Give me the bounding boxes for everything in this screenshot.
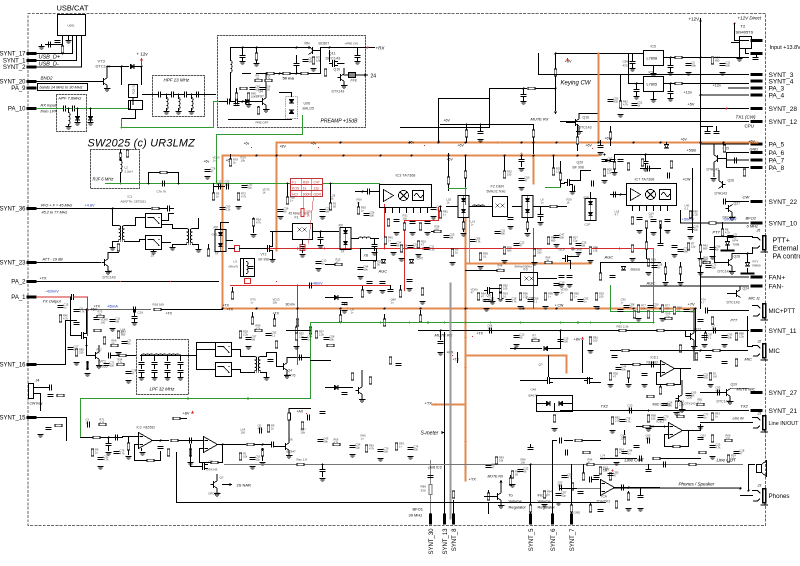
- svg-text:C48: C48: [531, 388, 537, 392]
- svg-text:VT2: VT2: [261, 253, 267, 257]
- ground: [598, 153, 604, 156]
- wire: [571, 514, 573, 518]
- wire: [266, 373, 268, 377]
- svg-text:SYNT_13: SYNT_13: [443, 528, 449, 555]
- wire: [197, 342, 216, 344]
- transformer: [119, 226, 125, 242]
- wire: [580, 171, 582, 181]
- junction on +12 rail: [556, 142, 558, 144]
- wire +6V stub: [441, 124, 534, 126]
- junction on +TX rail: [256, 308, 258, 310]
- ground: [425, 233, 431, 236]
- capacitor: [407, 280, 412, 282]
- junction: [256, 47, 258, 49]
- wire: [708, 310, 749, 312]
- ground: [420, 302, 426, 305]
- svg-text:+6v: +6v: [244, 142, 250, 146]
- ground: [286, 456, 292, 459]
- wire: [590, 503, 592, 505]
- wire: [130, 101, 132, 109]
- junction: [167, 355, 169, 357]
- svg-text:DTC143: DTC143: [579, 126, 592, 130]
- wire: [447, 206, 458, 208]
- +12v arrow: [140, 58, 143, 61]
- cap: [308, 415, 310, 420]
- wire: [565, 440, 573, 442]
- wire: [86, 346, 88, 356]
- svg-text:10k: 10k: [324, 440, 329, 444]
- wire: [221, 222, 229, 224]
- svg-text:+5SB: +5SB: [687, 149, 697, 153]
- svg-text:2.2k: 2.2k: [523, 295, 529, 299]
- wire: [548, 348, 561, 350]
- wire: [167, 366, 169, 369]
- svg-text:4.7k: 4.7k: [256, 327, 262, 331]
- capacitor: [98, 458, 103, 460]
- wire: [494, 330, 511, 332]
- wire: [344, 74, 348, 76]
- wire BFO2: [681, 222, 749, 224]
- wire RX input green: [37, 108, 63, 110]
- wire: [361, 394, 363, 398]
- wire: [286, 358, 288, 363]
- svg-text:1n: 1n: [391, 301, 395, 305]
- wire green audio line: [311, 322, 654, 324]
- resistor: [261, 449, 264, 456]
- junction on +12 rail: [533, 142, 535, 144]
- wire: [466, 270, 497, 272]
- pad SYNT_13: [443, 514, 446, 525]
- svg-text:100: 100: [266, 88, 271, 92]
- svg-text:IC6: IC6: [649, 71, 655, 75]
- red arrow: [301, 247, 304, 250]
- cap: [672, 246, 677, 248]
- wire: [714, 237, 716, 263]
- wire: [196, 356, 198, 370]
- wire: [664, 435, 666, 447]
- wire: [108, 447, 110, 451]
- wire: [128, 437, 130, 443]
- wire: [230, 101, 235, 103]
- resistor: [589, 247, 592, 254]
- wire orange rail y155: [223, 155, 599, 157]
- pad PA_8: [751, 166, 763, 169]
- wire: [214, 186, 225, 188]
- wire: [730, 388, 748, 390]
- wire mute line: [419, 330, 686, 332]
- resistor: [339, 315, 342, 322]
- cap: [638, 496, 643, 498]
- svg-text:10k: 10k: [692, 64, 697, 68]
- resistor: [275, 341, 278, 348]
- capacitor: [698, 376, 703, 378]
- wire: [262, 449, 264, 451]
- wire: [492, 293, 494, 301]
- wire gray TX mon: [77, 309, 151, 311]
- wire PA_3: [729, 87, 749, 89]
- resistor: [419, 315, 422, 322]
- wire: [136, 217, 146, 219]
- wire to relay: [121, 67, 123, 85]
- svg-text:10k: 10k: [301, 431, 306, 435]
- ground: [660, 319, 666, 322]
- svg-text:Volume: Volume: [509, 499, 523, 504]
- block RJF 6 MHz: [91, 150, 140, 189]
- wire: [256, 48, 258, 53]
- wire green from detector: [653, 249, 655, 323]
- wire: [311, 360, 331, 362]
- capacitor: [616, 368, 621, 370]
- ground: [250, 467, 256, 470]
- output arrow: [365, 74, 368, 77]
- wire: [504, 156, 506, 171]
- wire: [741, 350, 748, 352]
- svg-text:TX2: TX2: [601, 404, 609, 409]
- junction green: [653, 322, 655, 324]
- resistor: [312, 57, 315, 64]
- capacitor: [165, 363, 170, 365]
- svg-text:1M: 1M: [546, 259, 550, 263]
- svg-text:1+: 1+: [388, 239, 391, 243]
- junction green: [520, 322, 522, 324]
- pad SYNT_3: [751, 73, 763, 76]
- capacitor: [714, 328, 716, 333]
- pad SYNT_16: [27, 363, 37, 366]
- junction green: [620, 322, 622, 324]
- wire: [636, 84, 638, 89]
- svg-text:MUTE RX: MUTE RX: [488, 475, 504, 479]
- ground: [588, 261, 594, 264]
- op-amp: [139, 433, 153, 449]
- wire af1 out: [153, 440, 169, 442]
- arrow: [513, 347, 516, 350]
- junction on +6V rail: [533, 155, 535, 157]
- wire: [265, 105, 267, 108]
- wire: [680, 263, 682, 267]
- resistor: [399, 290, 402, 297]
- wire: [166, 95, 168, 99]
- orange arrow left: [433, 403, 436, 406]
- wire: [732, 42, 740, 44]
- wire: [670, 84, 672, 91]
- transistor: [338, 74, 344, 82]
- svg-text:SYNT_2: SYNT_2: [3, 65, 26, 71]
- orange junction: [275, 154, 277, 156]
- transistor: [102, 259, 108, 267]
- ground: [254, 64, 260, 67]
- svg-text:100: 100: [726, 64, 731, 68]
- svg-text:10k: 10k: [603, 469, 608, 473]
- junction: [296, 73, 298, 75]
- pad Input-: [751, 52, 763, 55]
- svg-text:Q16: Q16: [583, 116, 590, 120]
- svg-text:100: 100: [621, 437, 626, 441]
- capacitor: [391, 244, 396, 246]
- capacitor: [578, 300, 583, 302]
- svg-text:SYNT_12: SYNT_12: [769, 119, 798, 126]
- wire: [302, 251, 304, 253]
- svg-text:from LPF: from LPF: [41, 109, 58, 114]
- wire: [571, 256, 579, 258]
- junction: [648, 410, 650, 412]
- wire: [614, 155, 616, 162]
- wire: [308, 47, 310, 49]
- wire orange +TX stub: [433, 404, 466, 406]
- junction on +6V rail: [343, 155, 345, 157]
- wire: [721, 350, 741, 352]
- pad SYNT_21: [751, 409, 763, 412]
- junction: [287, 183, 289, 185]
- resistor: [389, 357, 392, 364]
- ground: [188, 463, 194, 466]
- junction on +12 rail: [438, 142, 440, 144]
- cap: [538, 215, 543, 217]
- wire: [390, 286, 392, 289]
- svg-text:330: 330: [726, 437, 731, 441]
- wire: [128, 451, 130, 455]
- ground: [665, 231, 671, 234]
- svg-text:SYNT_10: SYNT_10: [769, 220, 798, 227]
- transistor: [495, 493, 501, 501]
- red junction: [424, 145, 426, 147]
- resistor: [532, 130, 535, 137]
- ground: [698, 427, 704, 430]
- resistor: [373, 261, 376, 268]
- wire: [227, 240, 233, 242]
- wire: [196, 343, 198, 356]
- ground: [176, 112, 182, 115]
- svg-text:Volume: Volume: [538, 499, 552, 504]
- orange junction: [532, 154, 534, 156]
- ground: [688, 237, 694, 240]
- resistor: [697, 403, 704, 406]
- svg-text:PTT: PTT: [713, 230, 721, 235]
- junction: [670, 57, 672, 59]
- wire: [113, 225, 119, 227]
- IC2 pin: [385, 208, 387, 213]
- wire: [120, 173, 122, 184]
- diode mute: [544, 347, 548, 351]
- resistor: [569, 237, 572, 244]
- capacitor: [484, 300, 489, 302]
- ground: [278, 217, 284, 220]
- svg-text:RX Input: RX Input: [41, 103, 57, 108]
- svg-text:T2: T2: [741, 24, 746, 29]
- block HPF 13 MHz: [153, 76, 205, 117]
- resistor: [599, 273, 602, 280]
- wire: [320, 241, 322, 244]
- junction green: [444, 322, 446, 324]
- svg-text:100: 100: [384, 450, 389, 454]
- svg-text:GND: GND: [750, 148, 759, 152]
- junction: [329, 47, 331, 49]
- wire: [448, 185, 450, 191]
- inductor L1: [69, 113, 71, 125]
- wire: [288, 409, 290, 413]
- wire: [316, 50, 321, 52]
- pad FAN-: [751, 284, 763, 287]
- svg-text:0.1: 0.1: [534, 300, 538, 304]
- junction on control rail: [571, 248, 573, 250]
- svg-text:PA_10: PA_10: [8, 107, 26, 113]
- svg-text:680: 680: [435, 228, 440, 232]
- capacitor: [278, 210, 283, 212]
- wire: [614, 170, 616, 172]
- ground: [698, 259, 704, 262]
- transistor: [563, 256, 571, 262]
- junction on +TX rail: [340, 308, 342, 310]
- capacitor: [514, 244, 519, 246]
- wire: [120, 158, 122, 161]
- wire: [329, 51, 331, 62]
- capacitor: [250, 458, 255, 460]
- junction on control rail: [533, 248, 535, 250]
- ground: [342, 311, 348, 314]
- wire: [665, 330, 691, 332]
- ground: [438, 353, 444, 356]
- cap: [634, 446, 639, 448]
- svg-text:SYNT_20: SYNT_20: [0, 80, 26, 86]
- svg-text:5MHz/500Hz: 5MHz/500Hz: [515, 265, 533, 269]
- pad SYNT_17: [27, 52, 37, 55]
- svg-text:4.7k: 4.7k: [217, 183, 223, 187]
- wire: [286, 370, 288, 374]
- resistor: [609, 473, 612, 480]
- wire: [311, 179, 313, 197]
- junction on +6V rail: [256, 155, 258, 157]
- ground: [391, 253, 397, 256]
- svg-text:433: 433: [623, 64, 628, 68]
- junction on +6V rail: [448, 155, 450, 157]
- ground: [608, 385, 614, 388]
- wire: [560, 331, 562, 349]
- resistor: [570, 293, 573, 300]
- wire: [313, 231, 339, 233]
- wire: [107, 266, 109, 270]
- switch: [216, 343, 232, 357]
- wire: [180, 366, 182, 369]
- wire: [527, 230, 529, 232]
- ground IC5: [651, 74, 657, 77]
- orange junction: [464, 262, 466, 264]
- resistor: [595, 293, 598, 300]
- cap: [478, 132, 483, 134]
- pad Input+: [751, 39, 763, 42]
- ground: [691, 347, 697, 350]
- svg-text:PTT+: PTT+: [773, 238, 790, 245]
- resistor: [631, 217, 634, 224]
- capacitor: [662, 404, 667, 406]
- transformer: [255, 357, 261, 373]
- wire: [236, 91, 238, 93]
- ground: [643, 169, 649, 172]
- svg-text:4.7: 4.7: [615, 213, 619, 217]
- resistor: [255, 79, 262, 82]
- wire: [645, 165, 647, 168]
- svg-text:+TX: +TX: [40, 277, 48, 281]
- capacitor: [519, 179, 524, 181]
- ground: [38, 435, 44, 438]
- svg-text:4.7k: 4.7k: [120, 452, 126, 456]
- wire: [693, 309, 695, 333]
- inductor: [247, 262, 249, 274]
- wire: [243, 259, 245, 277]
- junction on +TX rail: [598, 308, 600, 310]
- wire: [141, 374, 143, 377]
- junction green: [560, 322, 562, 324]
- wire FAN-: [641, 285, 749, 287]
- svg-text:MUTE MIC: MUTE MIC: [737, 388, 756, 392]
- wire: [606, 160, 611, 162]
- junction on +TX rail: [465, 308, 467, 310]
- wire: [683, 430, 701, 432]
- resistor: [631, 245, 634, 252]
- box: [291, 179, 323, 197]
- resistor: [637, 305, 640, 312]
- cap: [648, 166, 650, 171]
- svg-text:Line IN/OUT: Line IN/OUT: [769, 421, 800, 427]
- wire: [670, 58, 672, 65]
- wire: [330, 184, 332, 203]
- capacitor: [139, 371, 144, 373]
- ground: [407, 289, 413, 292]
- svg-text:BF 998: BF 998: [573, 166, 584, 170]
- ground: [588, 351, 594, 354]
- wire: [735, 40, 749, 42]
- resistor: [613, 162, 616, 169]
- svg-text:Phones / Speaker: Phones / Speaker: [679, 482, 715, 487]
- wire: [232, 349, 241, 351]
- svg-text:1+: 1+: [290, 199, 293, 203]
- svg-text:+7V: +7V: [688, 302, 696, 307]
- wire: [213, 184, 215, 193]
- ground: [75, 123, 81, 126]
- wire: [134, 66, 141, 68]
- wire: [500, 482, 502, 493]
- transistor: [688, 333, 694, 341]
- ground: [350, 455, 356, 458]
- resistor: [147, 459, 154, 462]
- wire: [739, 286, 741, 290]
- wire: [277, 366, 281, 368]
- svg-text:10k: 10k: [403, 217, 408, 221]
- resistor: [117, 363, 124, 366]
- svg-text:2.2uH: 2.2uH: [125, 170, 133, 174]
- svg-text:1M: 1M: [309, 60, 313, 64]
- wire: [200, 448, 204, 450]
- ground: [646, 273, 652, 276]
- wire: [255, 444, 271, 446]
- ground: [710, 257, 716, 260]
- junction: [523, 88, 525, 90]
- resistor: [267, 72, 274, 75]
- wire red jog: [405, 220, 439, 222]
- svg-text:680: 680: [690, 310, 695, 314]
- wire: [432, 231, 434, 233]
- resistor: [127, 443, 130, 450]
- junction on +TX rail: [633, 308, 635, 310]
- ground: [394, 233, 400, 236]
- svg-text:MIC: MIC: [745, 357, 752, 362]
- wire: [178, 95, 180, 99]
- wire: [653, 92, 655, 99]
- wire: [72, 36, 74, 54]
- wire: [374, 248, 376, 251]
- transistor: [724, 389, 730, 397]
- resistor: [711, 317, 714, 324]
- ground: [300, 255, 306, 258]
- svg-text:SYNT_8: SYNT_8: [452, 528, 458, 551]
